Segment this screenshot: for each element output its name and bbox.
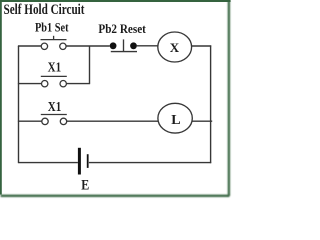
svg-text:E: E bbox=[81, 178, 89, 194]
svg-text:X1: X1 bbox=[48, 61, 62, 76]
wire bottom left of battery bbox=[18, 162, 78, 164]
wire lamp L to right rail bbox=[192, 120, 212, 122]
wire right rail bbox=[210, 45, 212, 163]
lamp L bbox=[158, 103, 192, 133]
wire top rung left segment bbox=[18, 45, 41, 47]
relay contact X1 (rung 2, NO) bbox=[41, 76, 67, 87]
wire rung 2 left segment bbox=[18, 83, 42, 85]
wire junction drop to rung 2 bbox=[89, 46, 91, 84]
border frame bbox=[0, 0, 231, 196]
relay contact X1 (rung 3, NO) bbox=[41, 115, 67, 125]
relay coil X bbox=[158, 32, 192, 62]
wire coil X to right rail bbox=[192, 45, 212, 47]
pushbutton Pb2 Reset (NC contact) bbox=[110, 39, 137, 51]
wire rung 3 middle segment bbox=[67, 120, 159, 122]
svg-text:Pb1 Set: Pb1 Set bbox=[35, 19, 69, 34]
svg-text:X: X bbox=[170, 40, 180, 55]
svg-text:L: L bbox=[171, 113, 180, 128]
svg-text:Pb2 Reset: Pb2 Reset bbox=[98, 21, 146, 36]
wire bottom right of battery bbox=[89, 162, 211, 164]
svg-text:X1: X1 bbox=[48, 100, 62, 115]
wire left rail bbox=[18, 46, 20, 163]
pushbutton Pb1 Set (NO contact) bbox=[41, 36, 67, 50]
wire rung 3 left segment bbox=[18, 120, 42, 122]
wire top rung middle segment bbox=[66, 45, 110, 47]
svg-text:Self Hold Circuit: Self Hold Circuit bbox=[4, 2, 85, 18]
wire rung 2 right segment bbox=[66, 83, 90, 85]
wire top rung right segment bbox=[137, 45, 158, 47]
battery E bbox=[79, 148, 87, 175]
